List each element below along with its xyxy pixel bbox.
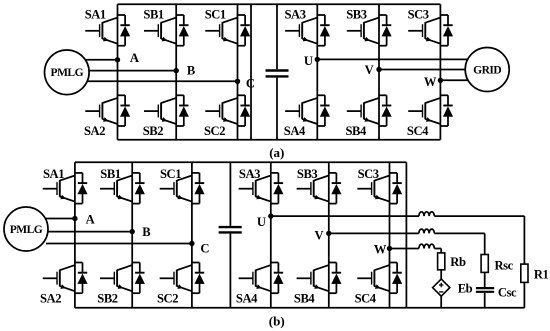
source Eb controlled voltage source diamond	[433, 279, 450, 296]
grid circle (a)	[465, 48, 509, 92]
wire: R1 bottom to common rail	[523, 282, 525, 307]
svg-text:C: C	[246, 76, 255, 90]
svg-text:U: U	[304, 54, 313, 68]
svg-text:SA2: SA2	[84, 124, 105, 138]
svg-text:(b): (b)	[269, 313, 285, 328]
svg-text:B: B	[187, 63, 196, 77]
wire: W line to Rb branch	[434, 249, 441, 253]
wire: common bottom rail of snubber network	[406, 307, 524, 309]
transistor SC3 IGBT with antiparallel diode (a)	[408, 15, 453, 46]
svg-text:SA4: SA4	[236, 292, 258, 306]
svg-text:SA2: SA2	[40, 292, 61, 306]
wire: PMLG phase line to node C	[87, 80, 238, 82]
svg-text:SC3: SC3	[408, 8, 429, 22]
transistor SA4 IGBT with antiparallel diode (b)	[239, 263, 283, 294]
svg-text:GRID: GRID	[473, 65, 501, 77]
wire: U line to filter inductor (b)	[271, 215, 419, 217]
wire: Rb to Eb link	[440, 270, 442, 279]
transistor SB1 IGBT with antiparallel diode (a)	[144, 15, 189, 46]
wire: phase leg W (a)	[439, 4, 441, 140]
transistor SA3 IGBT with antiparallel diode (b)	[239, 173, 283, 204]
svg-text:A: A	[86, 212, 95, 226]
svg-text:SB4: SB4	[346, 124, 368, 138]
node V junction dot (b)	[326, 231, 331, 236]
inductor Lw on W line	[419, 244, 434, 248]
transistor SC1 IGBT with antiparallel diode (b)	[160, 173, 205, 204]
svg-text:SC3: SC3	[358, 167, 379, 181]
wire: U line to R1 branch	[434, 216, 524, 264]
node U junction dot (b)	[268, 213, 273, 218]
svg-text:SA1: SA1	[85, 8, 106, 22]
svg-text:SB3: SB3	[297, 167, 318, 181]
wire: PMLG phase line to node B	[88, 70, 176, 72]
svg-text:PMLG: PMLG	[51, 67, 84, 79]
transistor SC4 IGBT with antiparallel diode (a)	[408, 95, 453, 126]
wire: converter (a) top DC rail	[118, 3, 441, 5]
node C junction dot (b)	[189, 241, 194, 246]
transistor SA3 IGBT with antiparallel diode (a)	[285, 15, 330, 46]
svg-text:SC2: SC2	[204, 124, 225, 138]
svg-text:Rb: Rb	[450, 255, 466, 269]
transistor SB3 IGBT with antiparallel diode (b)	[297, 173, 342, 204]
wire: phase leg B (a)	[175, 4, 177, 140]
wire: phase leg V (b)	[328, 162, 330, 307]
svg-text:PMLG: PMLG	[10, 224, 43, 236]
svg-text:Eb: Eb	[458, 282, 473, 296]
transistor SB1 IGBT with antiparallel diode (b)	[100, 173, 145, 204]
resistor Rsc	[481, 255, 488, 273]
transistor SB2 IGBT with antiparallel diode (a)	[144, 95, 189, 126]
wire: phase leg A (b)	[74, 162, 76, 307]
wire: phase leg U (b)	[270, 162, 272, 307]
transistor SA2 IGBT with antiparallel diode (a)	[85, 95, 130, 126]
svg-text:SC2: SC2	[157, 292, 178, 306]
svg-text:R1: R1	[534, 267, 549, 281]
transistor SC3 IGBT with antiparallel diode (b)	[357, 173, 402, 204]
wire: phase leg B (b)	[131, 162, 133, 307]
wire: node V line to GRID	[379, 69, 468, 71]
svg-text:V: V	[315, 228, 324, 242]
wire: phase leg U (a)	[316, 4, 318, 140]
node A junction dot (a)	[115, 57, 120, 62]
node V junction dot (a)	[376, 67, 381, 72]
wire: converter (b) right enclosure edge	[405, 162, 407, 307]
wire: phase leg C (a)	[237, 4, 239, 140]
node W junction dot (b)	[387, 246, 392, 251]
transistor SA4 IGBT with antiparallel diode (a)	[285, 95, 330, 126]
node B junction dot (a)	[174, 68, 179, 73]
generator PMLG circle (b)	[4, 207, 48, 251]
svg-text:(a): (a)	[269, 145, 284, 160]
wire: node U line to GRID	[317, 58, 470, 60]
transistor SB2 IGBT with antiparallel diode (b)	[100, 263, 145, 294]
resistor R1	[521, 264, 528, 282]
transistor SC4 IGBT with antiparallel diode (b)	[357, 263, 402, 294]
svg-text:U: U	[257, 215, 266, 229]
wire: Csc bottom to common rail	[484, 293, 486, 308]
svg-text:SA4: SA4	[284, 124, 306, 138]
capacitor DC-link (b)	[219, 162, 242, 307]
svg-text:Rsc: Rsc	[495, 259, 514, 273]
svg-text:SB2: SB2	[143, 124, 164, 138]
wire: node W line to GRID	[440, 79, 470, 81]
svg-text:W: W	[374, 242, 387, 256]
transistor SB3 IGBT with antiparallel diode (a)	[347, 15, 392, 46]
generator PMLG circle (a)	[45, 50, 90, 95]
svg-text:A: A	[130, 51, 139, 65]
svg-text:SB4: SB4	[294, 292, 316, 306]
svg-text:SB1: SB1	[100, 167, 121, 181]
node U junction dot (a)	[315, 57, 320, 62]
wire: PMLG phase line to node A (b)	[44, 218, 75, 220]
transistor SA1 IGBT with antiparallel diode (a)	[85, 15, 130, 46]
wire: PMLG phase line to node C (b)	[46, 243, 192, 245]
capacitor Csc	[476, 288, 494, 292]
transistor SC2 IGBT with antiparallel diode (b)	[160, 263, 205, 294]
svg-text:SA3: SA3	[239, 167, 260, 181]
inductor Lv on V line	[419, 229, 434, 233]
wire: converter (a) bottom DC rail	[118, 139, 441, 141]
svg-text:SA3: SA3	[285, 8, 306, 22]
svg-text:SA1: SA1	[43, 167, 64, 181]
svg-text:SC1: SC1	[205, 8, 226, 22]
wire: V line to Rsc branch	[434, 233, 484, 254]
wire: phase leg C (b)	[191, 162, 193, 307]
transistor SA2 IGBT with antiparallel diode (b)	[43, 263, 88, 294]
node C junction dot (a)	[235, 79, 240, 84]
node A junction dot (b)	[72, 216, 77, 221]
wire: W line to filter inductor (b)	[390, 248, 419, 250]
node B junction dot (b)	[130, 229, 135, 234]
svg-text:C: C	[200, 242, 209, 256]
inductor Lu on U line	[419, 212, 434, 216]
svg-text:SC4: SC4	[407, 124, 429, 138]
svg-text:SB3: SB3	[346, 8, 367, 22]
svg-text:W: W	[424, 75, 437, 89]
svg-text:SC1: SC1	[160, 167, 181, 181]
transistor SC2 IGBT with antiparallel diode (a)	[205, 95, 250, 126]
svg-text:SC4: SC4	[355, 292, 377, 306]
wire: divider between machine-side and grid-side bridge (a)	[250, 4, 252, 140]
capacitor DC-link (a)	[266, 4, 289, 140]
transistor SB4 IGBT with antiparallel diode (b)	[297, 263, 342, 294]
wire: V line to filter inductor (b)	[329, 232, 419, 234]
wire: phase leg A (a)	[117, 4, 119, 140]
wire: Rsc to Csc link	[484, 272, 486, 287]
svg-text:SB1: SB1	[143, 8, 164, 22]
transistor SB4 IGBT with antiparallel diode (a)	[347, 95, 392, 126]
transistor SC1 IGBT with antiparallel diode (a)	[205, 15, 250, 46]
wire: phase leg V (a)	[378, 4, 380, 140]
wire: converter (b) bottom DC rail	[75, 307, 407, 309]
svg-text:V: V	[365, 63, 374, 77]
wire: PMLG phase line to node B (b)	[48, 231, 133, 233]
svg-text:SB2: SB2	[97, 292, 118, 306]
wire: converter (b) top DC rail	[75, 161, 407, 163]
node W junction dot (a)	[438, 78, 443, 83]
svg-text:Csc: Csc	[498, 286, 517, 300]
wire: PMLG phase line to node A	[84, 59, 118, 61]
wire: phase leg W (b)	[389, 162, 391, 307]
svg-text:B: B	[142, 225, 151, 239]
wire: Eb bottom to common rail	[440, 296, 442, 308]
resistor Rb	[438, 253, 445, 270]
transistor SA1 IGBT with antiparallel diode (b)	[43, 173, 88, 204]
